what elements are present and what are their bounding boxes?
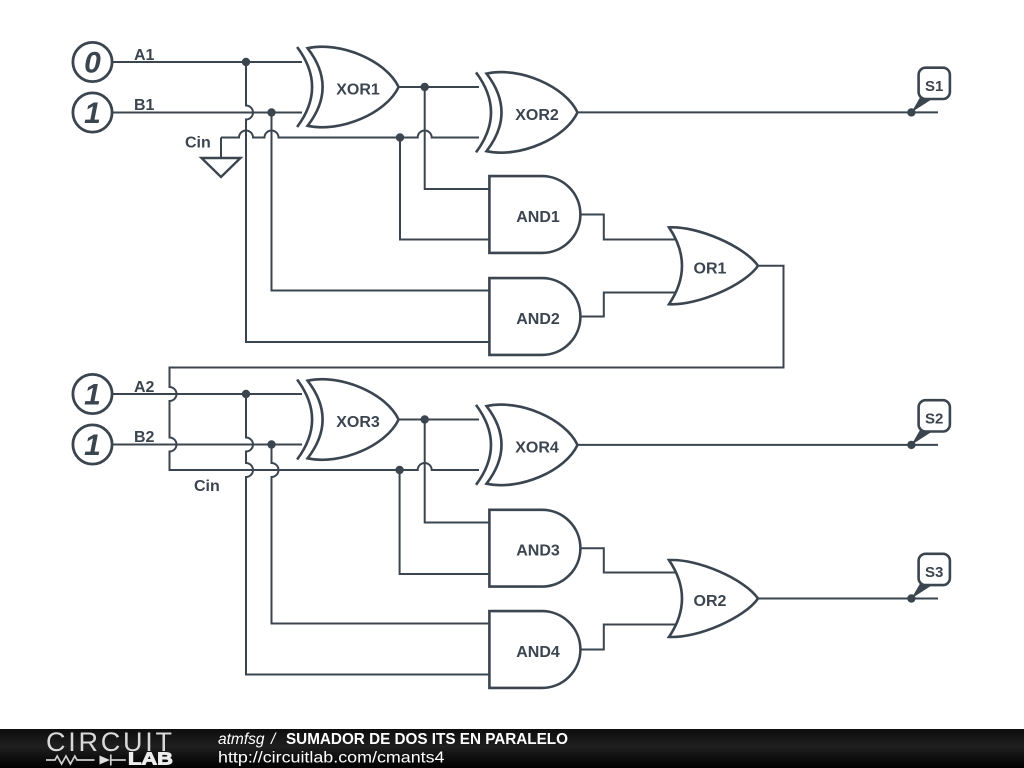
wire Cin net with hops to XOR2 bottom input: [221, 131, 479, 138]
wire AND4 output jog to OR2 bottom input: [580, 625, 677, 650]
wire B1 from source to XOR1 bottom input: [113, 112, 303, 114]
wire OR2 output to S3: [758, 598, 938, 600]
svg-text:SUMADOR DE DOS ITS EN PARALELO: SUMADOR DE DOS ITS EN PARALELO: [286, 731, 568, 748]
junction node on Cin2 net: [395, 466, 403, 474]
ground stem for Cin: [220, 138, 222, 159]
AND gate AND3: [489, 510, 580, 587]
ground symbol triangle: [202, 158, 241, 177]
svg-text:S1: S1: [925, 78, 943, 95]
output flag S1: [907, 68, 950, 117]
wire from node at XOR1 output down to AND1 top input: [425, 87, 490, 189]
junction node at B2/vertical: [267, 440, 275, 448]
svg-text:LAB: LAB: [128, 749, 173, 768]
svg-text:XOR4: XOR4: [515, 439, 559, 456]
svg-text:1: 1: [84, 97, 101, 130]
wire XOR3 output to XOR4 top input: [399, 419, 479, 421]
wire A2 from source to XOR3 top input: [113, 393, 303, 395]
junction node at A2/vertical: [242, 390, 250, 398]
OR gate OR2: [669, 560, 758, 637]
wire B2 from source to XOR3 bottom input: [113, 444, 303, 446]
footer logo resistor-diode glyph: [100, 756, 111, 765]
wire XOR4 output to S2: [578, 444, 939, 446]
svg-text:http://circuitlab.com/cmants4: http://circuitlab.com/cmants4: [218, 750, 445, 767]
wire from node at A1 down (hop over B1) to AND2 bottom input: [246, 62, 490, 342]
AND gate AND4: [489, 611, 580, 688]
AND gate AND2: [489, 278, 580, 355]
junction node at A1/vertical: [242, 58, 250, 66]
svg-text:AND2: AND2: [516, 311, 560, 328]
XOR gate XOR4: [476, 405, 578, 486]
svg-text:A2: A2: [134, 379, 155, 396]
svg-text:XOR3: XOR3: [336, 414, 380, 431]
svg-text:OR2: OR2: [694, 593, 727, 610]
wire from node at A2 down (hops over B2 and Cin2) to AND4 bottom input: [246, 394, 490, 675]
svg-text:AND4: AND4: [516, 644, 560, 661]
footer bar: [0, 729, 1024, 768]
wire AND1 output jog to OR1 top input: [580, 215, 677, 240]
svg-text:0: 0: [84, 47, 101, 80]
svg-text:AND3: AND3: [516, 543, 560, 560]
svg-text:XOR2: XOR2: [515, 107, 559, 124]
svg-text:Cin: Cin: [194, 478, 220, 495]
junction node at XOR1 output: [421, 83, 429, 91]
svg-text:B1: B1: [134, 97, 155, 114]
AND gate AND1: [489, 176, 580, 253]
output flag S3: [907, 554, 950, 603]
wire from node at B2 down (hop over Cin2) to AND4 top input: [272, 445, 491, 624]
wire OR1 output carry down and across to lower Cin (hops over A2, B2): [170, 266, 784, 470]
wire from node on Cin2 down to AND3 bottom input: [400, 470, 490, 574]
wire from node on Cin down to AND1 bottom input: [400, 138, 490, 240]
svg-text:OR1: OR1: [694, 260, 727, 277]
XOR gate XOR1: [297, 47, 399, 128]
svg-text:B2: B2: [134, 429, 155, 446]
wire from node at XOR3 output down to AND3 top input: [425, 420, 490, 523]
svg-text:atmfsg: atmfsg: [218, 731, 265, 748]
wire XOR1 output to XOR2 top input: [399, 86, 479, 88]
input source circle A2 value 1: [73, 374, 112, 413]
svg-text:XOR1: XOR1: [336, 82, 380, 99]
svg-text:AND1: AND1: [516, 209, 560, 226]
input source circle B2 value 1: [73, 425, 112, 464]
wire A1 from source to XOR1 top input: [113, 61, 303, 63]
svg-text:A1: A1: [134, 47, 155, 64]
svg-text:1: 1: [84, 429, 101, 462]
XOR gate XOR3: [297, 379, 399, 460]
OR gate OR1: [669, 227, 758, 304]
junction node at B1/vertical: [267, 108, 275, 116]
input source circle A1 value 0: [73, 42, 112, 81]
svg-text:S3: S3: [925, 564, 943, 581]
wire from node at B1 down to AND2 top input: [272, 113, 491, 291]
svg-text:S2: S2: [925, 411, 943, 428]
input source circle B1 value 1: [73, 93, 112, 132]
XOR gate XOR2: [476, 72, 578, 153]
junction node on Cin net: [396, 133, 404, 141]
wire XOR2 output to S1: [578, 111, 939, 113]
junction node at XOR3 output: [421, 415, 429, 423]
wire AND3 output jog to OR2 top input: [580, 548, 677, 572]
svg-text:Cin: Cin: [185, 135, 211, 152]
output flag S2: [907, 400, 950, 449]
wire AND2 output jog to OR1 bottom input: [580, 293, 677, 317]
svg-text:1: 1: [84, 379, 101, 412]
